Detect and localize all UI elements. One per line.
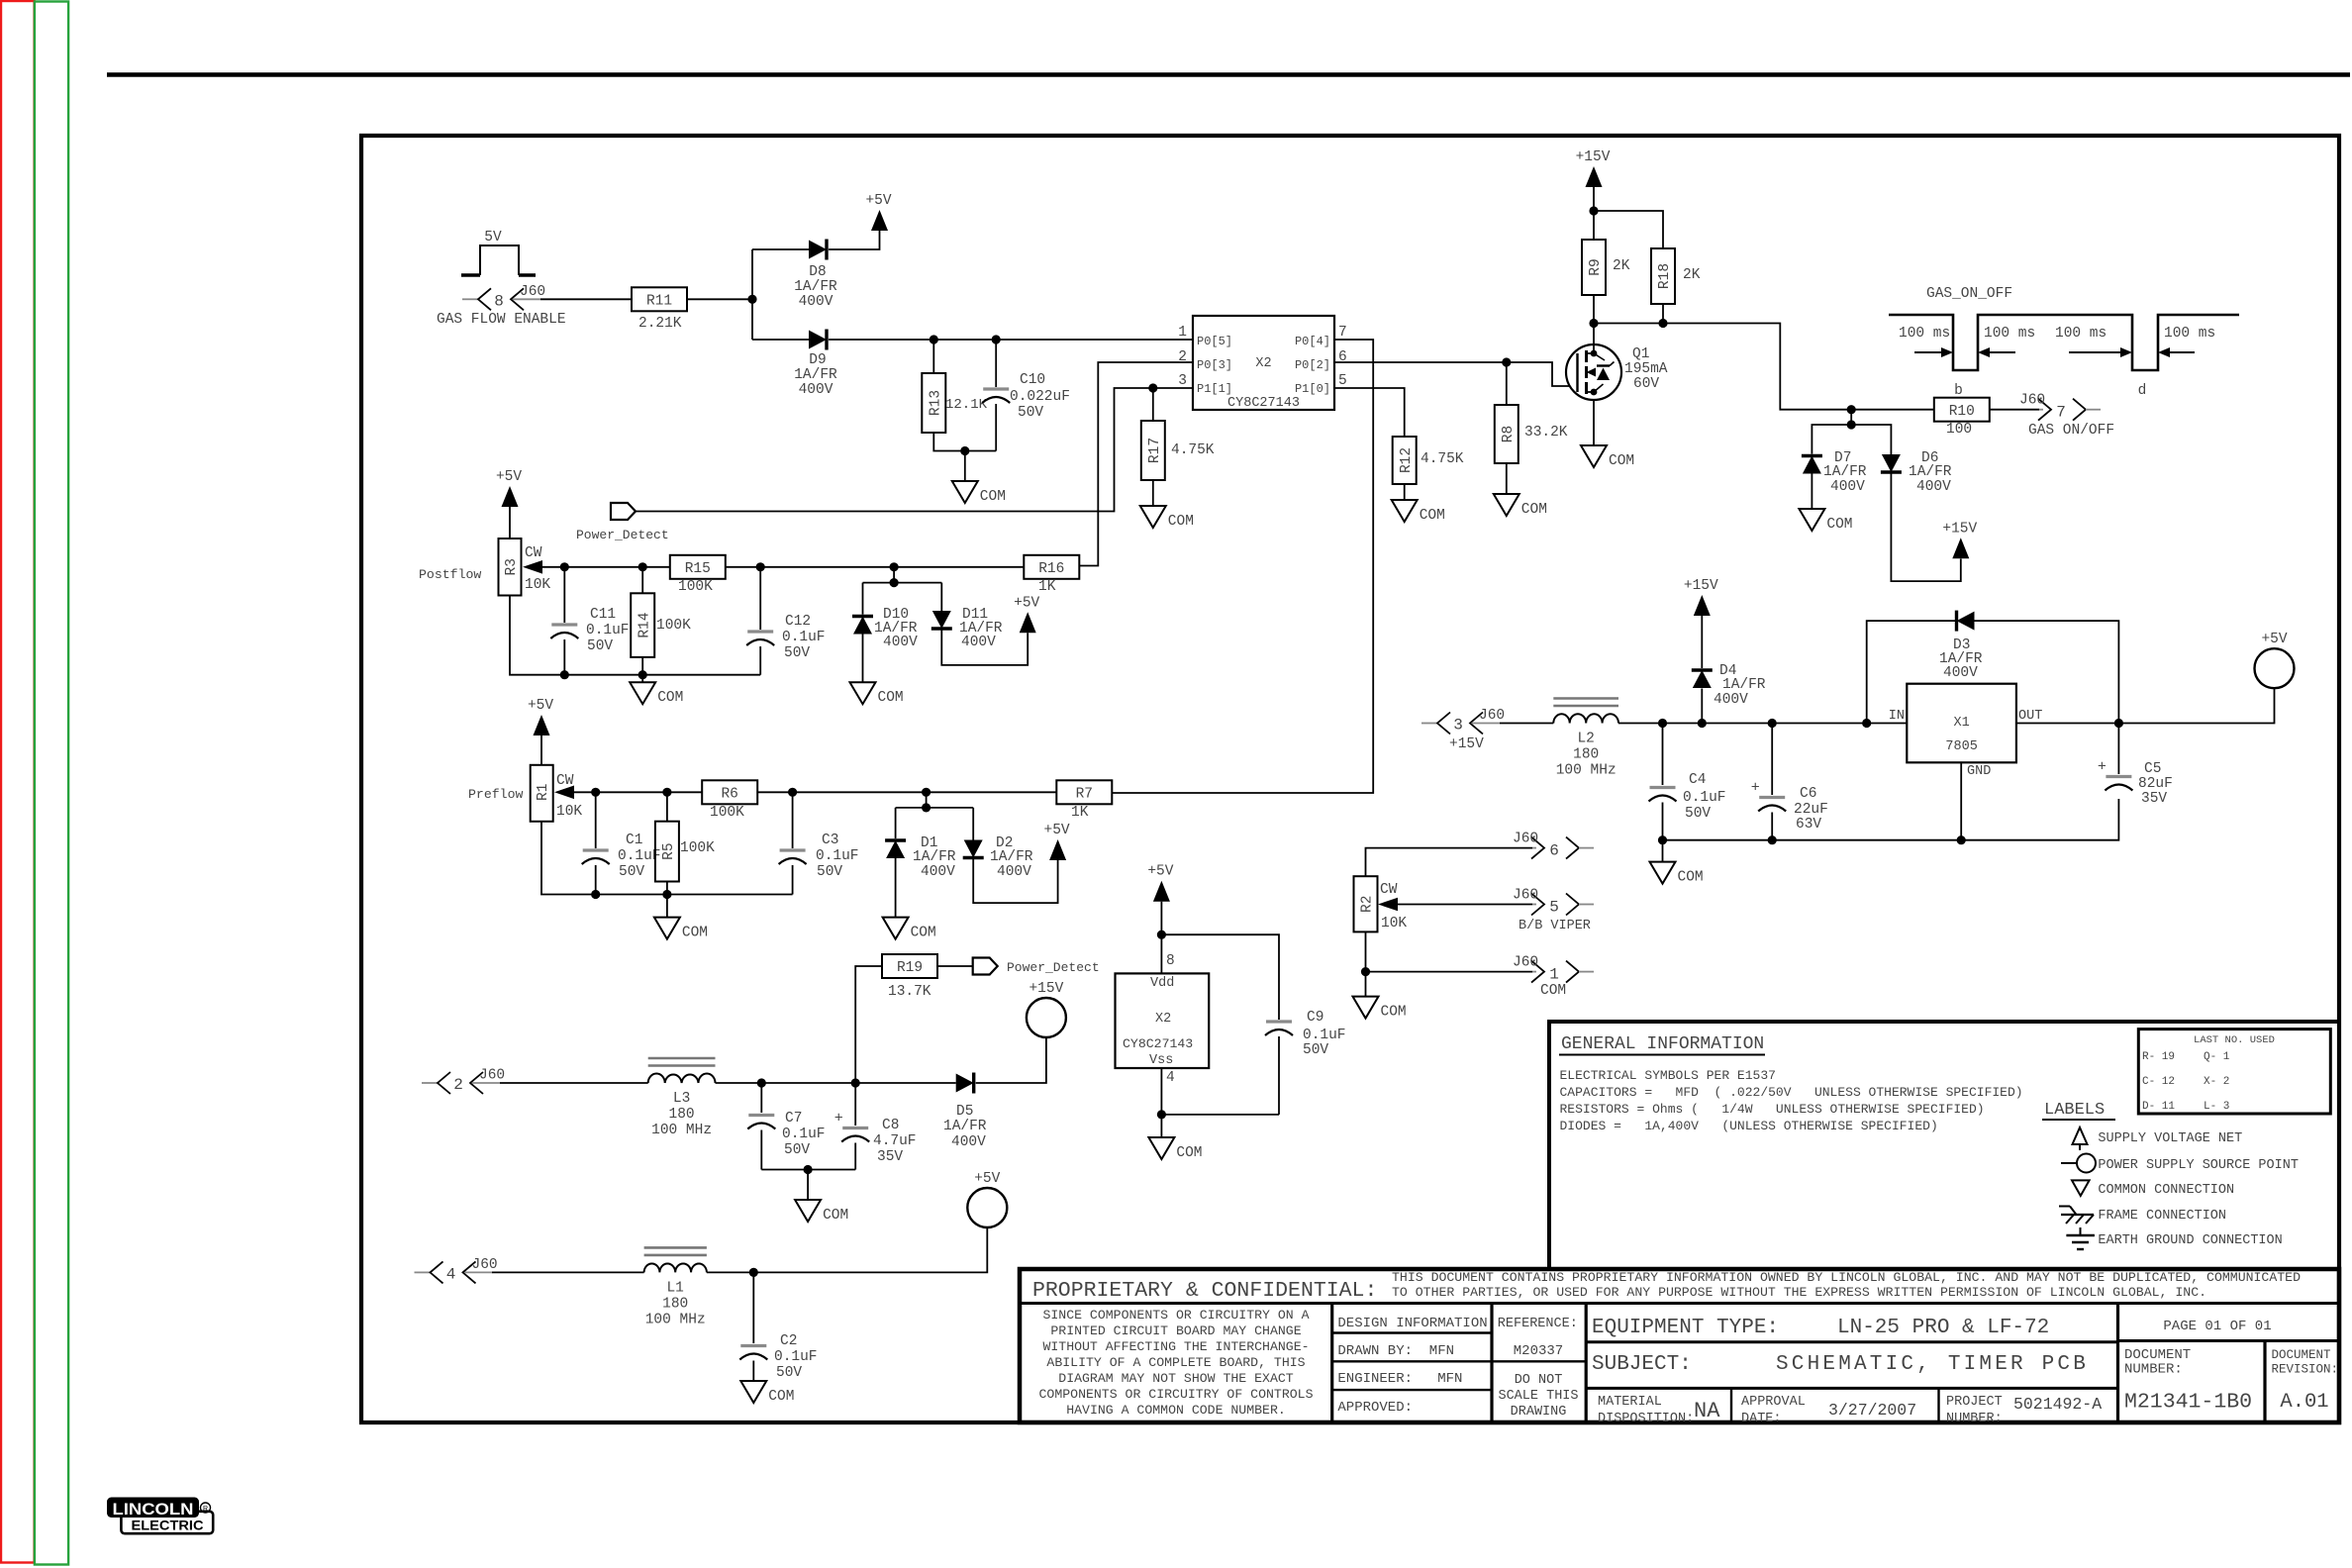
svg-text:60V: 60V — [1633, 376, 1659, 392]
svg-text:DO NOT: DO NOT — [1515, 1373, 1563, 1388]
svg-text:1A/FR: 1A/FR — [913, 849, 956, 865]
supply +5V (X2 Vdd) — [1147, 864, 1173, 974]
svg-text:DESIGN INFORMATION: DESIGN INFORMATION — [1337, 1316, 1487, 1331]
svg-text:7805: 7805 — [1945, 739, 1977, 754]
svg-text:50V: 50V — [817, 864, 842, 880]
svg-text:+5V: +5V — [1014, 595, 1039, 611]
ground COM (R2) — [1353, 997, 1407, 1021]
capacitor C7 0.1uF 50V — [747, 1083, 825, 1170]
svg-text:Q- 1: Q- 1 — [2204, 1051, 2230, 1063]
svg-text:3: 3 — [1178, 373, 1187, 389]
svg-text:1: 1 — [1549, 966, 1559, 984]
svg-text:63V: 63V — [1796, 817, 1821, 833]
connector J60 pin 6 — [1513, 832, 1594, 860]
wire R2 bottom to J60-1 and COM — [1361, 931, 1532, 996]
labels legend — [2042, 1101, 2115, 1120]
resistor R19 13.7K — [882, 954, 973, 1000]
svg-text:R1: R1 — [536, 784, 551, 801]
supply +5V (preflow pot) — [528, 698, 553, 765]
svg-text:1A/FR: 1A/FR — [943, 1119, 987, 1134]
wire R9/R18 bottoms to Q1 drain and gas net — [1589, 295, 1934, 410]
svg-text:R14: R14 — [637, 613, 652, 638]
svg-text:M21341-1B0: M21341-1B0 — [2124, 1391, 2252, 1415]
diode D9 1A/FR 400V — [794, 330, 837, 399]
node 5V input pulse symbol — [461, 230, 536, 275]
svg-text:400V: 400V — [961, 635, 996, 650]
svg-text:400V: 400V — [1943, 665, 1978, 681]
svg-text:400V: 400V — [921, 864, 955, 880]
svg-text:C7: C7 — [785, 1111, 802, 1127]
capacitor C6 22uF 63V — [1751, 724, 1828, 840]
supply +5V (above D8) — [865, 193, 891, 231]
svg-text:R2: R2 — [1360, 896, 1376, 913]
wire X2 pin5 to R12 — [1334, 388, 1405, 437]
svg-text:0.1uF: 0.1uF — [1303, 1028, 1346, 1043]
svg-text:ELECTRIC: ELECTRIC — [132, 1518, 204, 1532]
svg-text:C11: C11 — [590, 607, 616, 623]
resistor R8 33.2K — [1495, 362, 1568, 494]
supply +15V (D4) — [1684, 578, 1718, 616]
svg-text:COM: COM — [911, 926, 936, 941]
svg-text:R- 19: R- 19 — [2142, 1051, 2175, 1063]
svg-text:7: 7 — [2056, 404, 2066, 422]
svg-text:L2: L2 — [1577, 732, 1594, 747]
svg-text:APPROVAL: APPROVAL — [1741, 1395, 1806, 1410]
svg-text:R19: R19 — [897, 960, 923, 976]
transistor Q1 195mA 60V (current-limited MOSFET) — [1566, 324, 1668, 446]
svg-text:2K: 2K — [1683, 267, 1701, 283]
capacitor C8 4.7uF 35V — [834, 1083, 917, 1170]
svg-text:+5V: +5V — [496, 469, 522, 485]
resistor R9 2K — [1582, 240, 1630, 295]
wire postflow bottom rail — [510, 596, 760, 683]
svg-text:R16: R16 — [1038, 561, 1064, 577]
svg-text:P0[4]: P0[4] — [1295, 335, 1330, 348]
svg-text:4.75K: 4.75K — [1171, 442, 1215, 458]
svg-text:100: 100 — [1946, 422, 1972, 438]
supply +15V (top) — [1576, 149, 1611, 211]
svg-text:+: + — [1751, 780, 1760, 797]
ground COM (C2) — [740, 1381, 794, 1405]
svg-text:COM: COM — [1540, 983, 1566, 999]
diode D10 1A/FR 400V — [852, 607, 918, 682]
wire J60-3 to L2 — [1500, 723, 1553, 725]
svg-text:LABELS: LABELS — [2044, 1101, 2105, 1120]
svg-text:35V: 35V — [2141, 791, 2167, 807]
svg-text:50V: 50V — [1018, 405, 1043, 421]
svg-text:100 ms: 100 ms — [1984, 326, 2035, 342]
resistor R10 100 — [1934, 398, 1990, 438]
svg-text:5: 5 — [1338, 373, 1347, 389]
svg-text:DATE:: DATE: — [1741, 1412, 1782, 1426]
svg-text:SUPPLY VOLTAGE NET: SUPPLY VOLTAGE NET — [2098, 1131, 2242, 1146]
svg-text:+15V: +15V — [1029, 981, 1063, 997]
wire R11 to D8/D9 junction — [687, 249, 757, 340]
svg-text:82uF: 82uF — [2138, 776, 2173, 792]
svg-text:CW: CW — [1380, 882, 1398, 898]
svg-text:8: 8 — [1166, 953, 1175, 969]
svg-text:EARTH GROUND CONNECTION: EARTH GROUND CONNECTION — [2098, 1233, 2282, 1248]
diode D3 1A/FR 400V (regulator bypass) — [1867, 611, 2119, 724]
inductor L1 180 100MHz — [644, 1247, 707, 1327]
legend common connection symbol — [2072, 1180, 2234, 1198]
svg-text:50V: 50V — [784, 1142, 810, 1158]
svg-text:d: d — [2138, 383, 2147, 399]
svg-text:R7: R7 — [1076, 787, 1093, 803]
ground COM (postflow rail) — [630, 682, 683, 706]
svg-text:+15V: +15V — [1449, 736, 1484, 752]
ground COM (D1) — [883, 918, 936, 941]
svg-text:D5: D5 — [956, 1104, 973, 1120]
svg-text:0.022uF: 0.022uF — [1010, 389, 1070, 405]
svg-text:DOCUMENT: DOCUMENT — [2272, 1348, 2332, 1362]
wire J60-8 to R11 — [540, 298, 632, 300]
ground COM (D7) — [1799, 509, 1852, 533]
svg-text:FRAME CONNECTION: FRAME CONNECTION — [2098, 1209, 2226, 1224]
svg-text:C2: C2 — [780, 1333, 797, 1349]
svg-text:C3: C3 — [822, 833, 838, 848]
diode D1 1A/FR 400V — [885, 835, 956, 918]
resistor R18 2K — [1651, 248, 1701, 304]
svg-text:COM: COM — [1678, 870, 1704, 886]
svg-text:22uF: 22uF — [1794, 802, 1828, 818]
svg-text:R17: R17 — [1147, 438, 1163, 463]
svg-text:Q1: Q1 — [1632, 346, 1649, 362]
general information box — [1549, 1022, 2339, 1269]
svg-text:REFERENCE:: REFERENCE: — [1498, 1317, 1578, 1331]
svg-text:4: 4 — [446, 1265, 456, 1283]
svg-text:POWER SUPPLY SOURCE POINT: POWER SUPPLY SOURCE POINT — [2098, 1158, 2299, 1173]
svg-text:180: 180 — [669, 1107, 695, 1123]
ground COM (R8) — [1494, 494, 1547, 518]
svg-text:GND: GND — [1967, 764, 1991, 779]
wire junction to D8 — [752, 248, 809, 250]
svg-text:GENERAL INFORMATION: GENERAL INFORMATION — [1561, 1034, 1764, 1054]
svg-text:100 ms: 100 ms — [1899, 326, 1950, 342]
svg-text:100 MHz: 100 MHz — [1556, 763, 1617, 779]
svg-text:COM: COM — [1381, 1005, 1407, 1021]
wire J60-4 to L1 — [492, 1271, 644, 1273]
svg-text:400V: 400V — [1714, 692, 1748, 708]
svg-text:J60: J60 — [520, 284, 545, 300]
svg-text:R12: R12 — [1399, 447, 1415, 473]
svg-text:P0[3]: P0[3] — [1197, 358, 1232, 372]
svg-text:DRAWN BY: MFN: DRAWN BY: MFN — [1337, 1343, 1454, 1359]
op-amp U: microcontroller X2 CY8C27143 (power pins) — [1116, 953, 1210, 1086]
svg-text:1A/FR: 1A/FR — [794, 279, 837, 295]
svg-text:R18: R18 — [1657, 263, 1673, 289]
svg-text:10K: 10K — [1381, 916, 1407, 931]
power source point +15V — [1027, 981, 1066, 1037]
svg-text:R10: R10 — [1949, 404, 1975, 420]
svg-text:6: 6 — [1549, 842, 1559, 860]
svg-text:LAST NO. USED: LAST NO. USED — [2194, 1034, 2275, 1046]
svg-text:1K: 1K — [1071, 805, 1089, 821]
diode D8 1A/FR 400V — [794, 240, 837, 311]
wire X2 pin3 to R17 and Power_Detect — [636, 383, 1193, 511]
svg-text:CAPACITORS = MFD ( .022/50V: CAPACITORS = MFD ( .022/50V UNLESS OTHER… — [1560, 1085, 2023, 1100]
svg-text:L- 3: L- 3 — [2204, 1101, 2229, 1113]
supply +15V (D6 pull) — [1942, 521, 1977, 558]
resistor R16 1K — [1024, 555, 1079, 595]
wire X2 pin2 to R16 — [1079, 362, 1193, 566]
svg-text:1A/FR: 1A/FR — [1722, 677, 1766, 693]
legend earth ground connection symbol — [2066, 1227, 2282, 1249]
svg-text:Postflow: Postflow — [419, 567, 481, 582]
svg-text:50V: 50V — [587, 638, 613, 654]
svg-text:3/27/2007: 3/27/2007 — [1828, 1401, 1916, 1420]
diode D11 1A/FR 400V — [931, 607, 1028, 665]
ground COM (X2 Vss) — [1148, 1137, 1202, 1161]
svg-text:R13: R13 — [929, 390, 944, 416]
svg-text:C9: C9 — [1307, 1010, 1323, 1026]
svg-text:+: + — [834, 1111, 843, 1127]
svg-text:8: 8 — [494, 292, 504, 310]
svg-text:10K: 10K — [556, 804, 582, 820]
svg-text:PROJECT: PROJECT — [1946, 1395, 2003, 1410]
capacitor C3 0.1uF 50V — [779, 792, 859, 894]
wire X1 input row — [1618, 719, 1907, 728]
ground COM (C7/C8) — [795, 1200, 848, 1224]
svg-text:+: + — [2098, 759, 2107, 776]
voltage regulator X1 7805 — [1889, 684, 2043, 779]
node GAS_ON_OFF timing waveform — [1889, 286, 2239, 399]
svg-text:SINCE COMPONENTS OR CIRCUITRY: SINCE COMPONENTS OR CIRCUITRY ON A — [1042, 1308, 1309, 1323]
svg-text:195mA: 195mA — [1624, 361, 1668, 377]
wire D8 to +5V — [829, 230, 880, 249]
svg-text:+5V: +5V — [1147, 864, 1173, 880]
wire R19 to L3 row — [855, 966, 882, 1083]
svg-text:Power_Detect: Power_Detect — [1007, 960, 1100, 975]
svg-text:0.1uF: 0.1uF — [586, 623, 630, 638]
svg-text:X1: X1 — [1953, 716, 1969, 731]
svg-text:NUMBER:: NUMBER: — [2124, 1362, 2183, 1378]
svg-text:EQUIPMENT TYPE:: EQUIPMENT TYPE: — [1592, 1317, 1779, 1339]
svg-text:C8: C8 — [882, 1118, 899, 1133]
svg-text:C6: C6 — [1800, 786, 1816, 802]
ground COM (preflow rail) — [654, 918, 708, 941]
svg-text:COM: COM — [1826, 517, 1852, 533]
svg-text:100 ms: 100 ms — [2164, 326, 2215, 342]
net Power_Detect (destination flag) — [973, 958, 1100, 976]
wire +15V rail to R9/R18 tops — [1589, 206, 1663, 248]
svg-text:TO OTHER PARTIES, OR USED FOR: TO OTHER PARTIES, OR USED FOR ANY PURPOS… — [1392, 1285, 2206, 1300]
resistor R7 1K — [1056, 780, 1112, 821]
svg-text:LN-25 PRO & LF-72: LN-25 PRO & LF-72 — [1837, 1317, 2049, 1339]
wire Vss to C9 bottom and COM — [1157, 1068, 1279, 1137]
svg-text:THIS DOCUMENT CONTAINS PROPRIE: THIS DOCUMENT CONTAINS PROPRIETARY INFOR… — [1392, 1270, 2301, 1285]
svg-text:OUT: OUT — [2018, 709, 2042, 724]
wire to D6 — [1851, 425, 1891, 454]
svg-text:CY8C27143: CY8C27143 — [1123, 1036, 1193, 1051]
inductor L2 180 100MHz — [1553, 699, 1618, 779]
svg-text:COM: COM — [980, 489, 1006, 505]
svg-text:COM: COM — [682, 926, 708, 941]
resistor R12 4.75K — [1393, 437, 1464, 500]
ground COM (Q1 source) — [1581, 445, 1634, 469]
ground COM (R17) — [1140, 506, 1194, 530]
svg-text:D9: D9 — [809, 352, 826, 368]
diode D4 1A/FR 400V — [1692, 616, 1766, 724]
svg-text:RESISTORS = Ohms ( 1/4W UN: RESISTORS = Ohms ( 1/4W UNLESS OTHERWISE… — [1560, 1102, 1985, 1117]
svg-text:CY8C27143: CY8C27143 — [1227, 396, 1300, 411]
power source point +5V (X1 out) — [2255, 632, 2295, 688]
svg-text:P1[1]: P1[1] — [1197, 382, 1232, 396]
svg-text:0.1uF: 0.1uF — [782, 630, 826, 645]
capacitor C4 0.1uF 50V — [1649, 724, 1726, 840]
svg-text:C10: C10 — [1020, 372, 1045, 388]
svg-text:100 MHz: 100 MHz — [651, 1123, 712, 1138]
svg-text:COM: COM — [878, 690, 904, 706]
connector J60 pin 5 B/B VIPER — [1513, 888, 1594, 934]
net Power_Detect (source flag) — [576, 503, 669, 542]
svg-text:C1: C1 — [626, 833, 642, 848]
svg-text:DIODES = 1A,400V (UNLESS O: DIODES = 1A,400V (UNLESS OTHERWISE SPECI… — [1560, 1119, 1938, 1133]
svg-text:COM: COM — [1168, 514, 1194, 530]
legend power supply source point symbol — [2061, 1154, 2299, 1174]
svg-text:R8: R8 — [1501, 426, 1517, 442]
svg-text:COMPONENTS OR CIRCUITRY OF CON: COMPONENTS OR CIRCUITRY OF CONTROLS — [1039, 1387, 1314, 1402]
legend supply voltage net symbol — [2073, 1127, 2243, 1150]
svg-text:J60: J60 — [1479, 708, 1505, 724]
svg-text:Vss: Vss — [1149, 1053, 1173, 1068]
svg-text:3: 3 — [1453, 717, 1463, 735]
svg-text:35V: 35V — [877, 1149, 903, 1165]
svg-text:ENGINEER: MFN: ENGINEER: MFN — [1337, 1371, 1462, 1387]
svg-text:P1[0]: P1[0] — [1295, 382, 1330, 396]
svg-text:R3: R3 — [504, 558, 520, 575]
diode D7 1A/FR 400V — [1802, 450, 1867, 509]
svg-text:0.1uF: 0.1uF — [1683, 790, 1726, 806]
resistor R15 100K — [670, 555, 726, 595]
svg-text:M20337: M20337 — [1514, 1343, 1563, 1359]
svg-text:REVISION:: REVISION: — [2272, 1363, 2339, 1377]
svg-text:4: 4 — [1166, 1070, 1175, 1086]
svg-text:50V: 50V — [1303, 1042, 1328, 1058]
power source point +5V (L1) — [967, 1171, 1007, 1227]
svg-text:100K: 100K — [710, 805, 744, 821]
resistor R5 100K — [655, 792, 715, 894]
svg-text:SCALE THIS: SCALE THIS — [1498, 1389, 1578, 1404]
svg-text:1: 1 — [1178, 325, 1187, 341]
svg-text:PRINTED CIRCUIT BOARD MAY CHAN: PRINTED CIRCUIT BOARD MAY CHANGE — [1050, 1323, 1301, 1338]
svg-text:GAS ON/OFF: GAS ON/OFF — [2028, 423, 2114, 439]
title block — [1020, 1269, 2339, 1426]
inductor L3 180 100MHz — [648, 1058, 716, 1138]
svg-text:C5: C5 — [2144, 761, 2161, 777]
svg-text:50V: 50V — [619, 864, 644, 880]
svg-text:COMMON CONNECTION: COMMON CONNECTION — [2098, 1183, 2234, 1198]
resistor R13 12.1K — [922, 340, 987, 433]
svg-text:400V: 400V — [951, 1134, 986, 1150]
svg-text:100 MHz: 100 MHz — [645, 1312, 706, 1327]
connector J60 pin 4 — [415, 1257, 498, 1284]
capacitor C5 82uF 35V — [2098, 724, 2173, 808]
svg-text:180: 180 — [1573, 747, 1599, 763]
svg-text:R: R — [203, 1506, 208, 1513]
svg-text:P0[5]: P0[5] — [1197, 335, 1232, 348]
svg-text:J60: J60 — [1513, 955, 1538, 971]
svg-text:0.1uF: 0.1uF — [816, 848, 859, 864]
svg-text:+5V: +5V — [865, 193, 891, 209]
svg-text:APPROVED:: APPROVED: — [1337, 1400, 1413, 1416]
svg-text:R15: R15 — [685, 561, 711, 577]
svg-text:1A/FR: 1A/FR — [794, 367, 837, 383]
svg-text:Preflow: Preflow — [468, 787, 523, 802]
capacitor C9 0.1uF 50V — [1265, 1010, 1346, 1115]
svg-text:J60: J60 — [479, 1068, 505, 1084]
svg-text:D8: D8 — [809, 264, 826, 280]
wire R2 wiper to J60-5 — [1398, 904, 1532, 906]
connector J60 pin 2 — [422, 1068, 505, 1095]
svg-text:COM: COM — [1521, 502, 1547, 518]
svg-text:13.7K: 13.7K — [888, 984, 931, 1000]
svg-text:CW: CW — [525, 545, 542, 561]
svg-text:Vdd: Vdd — [1150, 976, 1174, 991]
svg-text:DIAGRAM MAY NOT SHOW THE EXACT: DIAGRAM MAY NOT SHOW THE EXACT — [1058, 1371, 1293, 1386]
wire Vdd junction to C9 top — [1161, 934, 1279, 1020]
svg-text:R9: R9 — [1588, 258, 1604, 275]
capacitor C12 0.1uF 50V — [746, 567, 825, 675]
svg-text:4.7uF: 4.7uF — [873, 1133, 917, 1149]
connector J60 pin 3 +15V — [1421, 708, 1505, 752]
capacitor C2 0.1uF 50V — [739, 1272, 817, 1381]
svg-text:J60: J60 — [2019, 393, 2045, 409]
svg-text:2: 2 — [453, 1076, 463, 1094]
svg-text:C12: C12 — [785, 614, 811, 630]
capacitor C11 0.1uF 50V — [550, 567, 629, 675]
svg-text:400V: 400V — [1830, 479, 1865, 495]
supply +5V (D2) — [1044, 823, 1070, 860]
svg-text:R11: R11 — [646, 294, 672, 310]
wire preflow wiper row — [574, 788, 1056, 797]
resistor R14 100K — [631, 567, 691, 675]
wire X1 GND lead — [1960, 763, 1962, 840]
svg-text:MATERIAL: MATERIAL — [1598, 1395, 1662, 1410]
svg-text:0.1uF: 0.1uF — [782, 1127, 826, 1142]
potentiometer R3 10K Postflow — [419, 539, 550, 596]
wire D5 to +15V circle — [976, 1037, 1046, 1083]
svg-text:NUMBER:: NUMBER: — [1946, 1412, 2003, 1426]
svg-text:2K: 2K — [1613, 258, 1630, 274]
wire R10 to J60-7 — [1990, 409, 2039, 411]
svg-text:C4: C4 — [1689, 772, 1706, 788]
svg-text:ABILITY OF A COMPLETE BOARD, T: ABILITY OF A COMPLETE BOARD, THIS — [1046, 1355, 1305, 1370]
wire postflow wiper row — [542, 562, 1025, 571]
resistor R6 100K — [702, 780, 757, 821]
svg-text:DRAWING: DRAWING — [1511, 1405, 1567, 1420]
svg-text:J60: J60 — [472, 1257, 498, 1273]
wire L1 row to +5V circle — [707, 1227, 987, 1277]
wire J60-2 to L3 — [500, 1082, 648, 1084]
svg-text:180: 180 — [662, 1296, 688, 1312]
svg-text:5V: 5V — [484, 230, 502, 245]
svg-text:J60: J60 — [1513, 832, 1538, 847]
resistor R11 2.21K — [632, 287, 687, 332]
wire X1 OUT row — [2016, 689, 2275, 729]
wire D1/D2 branch — [896, 792, 974, 839]
svg-text:J60: J60 — [1513, 888, 1538, 904]
wire D10/D11 branch — [863, 567, 942, 615]
svg-text:X2: X2 — [1255, 356, 1271, 371]
svg-text:10K: 10K — [525, 577, 550, 593]
diode D2 1A/FR 400V — [963, 835, 1058, 903]
svg-text:DISPOSITION:: DISPOSITION: — [1598, 1412, 1694, 1426]
capacitor C1 0.1uF 50V — [582, 792, 661, 894]
ground COM (R12) — [1392, 500, 1445, 524]
svg-text:COM: COM — [1176, 1145, 1202, 1161]
svg-text:100K: 100K — [656, 618, 691, 634]
